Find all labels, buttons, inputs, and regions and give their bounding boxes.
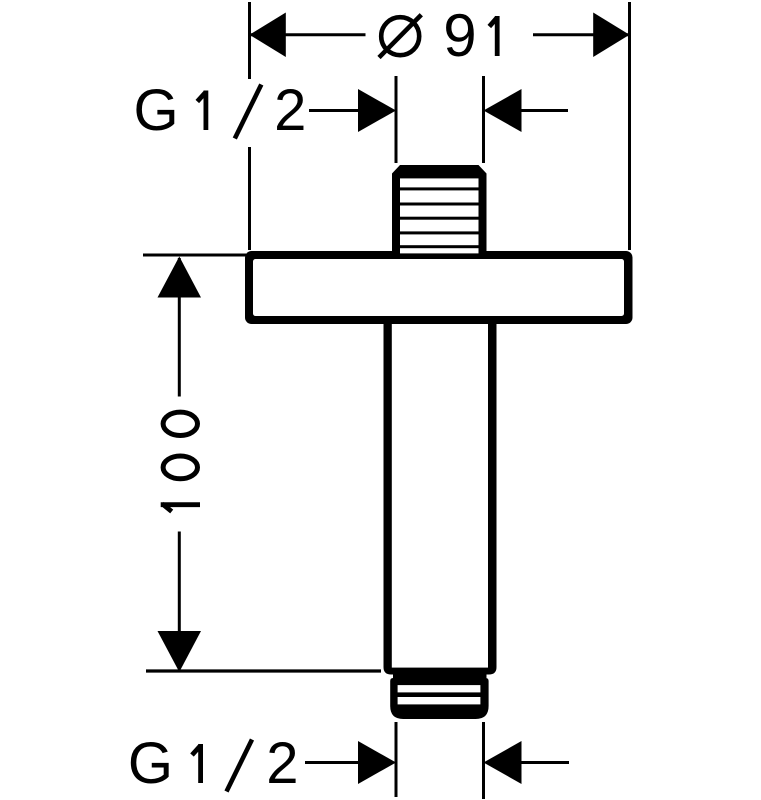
bottom G1/2 label: right extension line [482, 722, 485, 799]
dim Ø91: left arrowhead [250, 13, 286, 58]
top G1/2 label: right extension line [482, 76, 485, 163]
dim 100: up arrowhead [158, 257, 202, 298]
ceiling flange [245, 251, 633, 324]
svg-text:G: G [128, 731, 173, 796]
dim Ø91: left extension line [248, 2, 251, 250]
dim 100: digit 0 a (rotated ellipse) [163, 456, 197, 479]
top G1/2 label: left extension line [395, 76, 398, 163]
dim 100: dimension line [178, 258, 181, 668]
dim 100: digit 1 (rotated) [161, 504, 200, 512]
svg-text:2: 2 [274, 78, 306, 143]
thread line 4 [400, 231, 479, 234]
top G1/2 label: digit 1 [197, 91, 206, 131]
bottom thread white stripe 1 [398, 685, 481, 692]
dim 100: bottom extension line [146, 669, 381, 672]
thread line 1 [400, 187, 479, 190]
bottom G1/2 label: leader line right [521, 761, 569, 764]
dim Ø91: digit 1 [489, 16, 497, 56]
dim 100: down arrowhead [158, 631, 202, 672]
top G1/2 label: leader line right [521, 109, 568, 112]
bottom thread G1/2 body [390, 678, 488, 719]
dim 100: digit 0 b (rotated ellipse) [163, 412, 197, 435]
dim Ø91: dimension line [250, 33, 629, 36]
dim Ø91: right arrowhead [593, 13, 629, 58]
bottom G1/2 label: left-pointing arrowhead [484, 741, 522, 784]
bottom thread white stripe 2 [398, 697, 481, 704]
top G1/2 label: right-pointing arrowhead [358, 89, 396, 132]
dim 100: text mask [152, 397, 207, 532]
top G1/2 label: slash [235, 85, 261, 139]
dim Ø91: diameter symbol slash [379, 15, 421, 58]
top G1/2 label: left-pointing arrowhead [484, 89, 522, 132]
bottom G1/2 label: left extension line [395, 722, 398, 797]
neck groove [393, 670, 487, 684]
svg-text:2: 2 [266, 731, 298, 796]
dim Ø91: text mask [366, 13, 534, 58]
bottom G1/2 label: right-pointing arrowhead [358, 741, 396, 784]
top G1/2 label: text mask [127, 79, 313, 147]
thread line 3 [400, 217, 479, 220]
thread line 2 [400, 203, 479, 206]
bottom G1/2 label: slash [227, 740, 253, 792]
top G1/2 label: leader line left [309, 109, 360, 112]
svg-text:9: 9 [443, 2, 476, 69]
dim 100: top extension line [143, 254, 246, 257]
pipe [384, 324, 497, 675]
bottom G1/2 label: leader line left [305, 761, 358, 764]
bottom G1/2 label: digit 1 [192, 744, 201, 783]
dim Ø91: right extension line [628, 2, 631, 250]
thread line 5 [400, 245, 479, 248]
top thread G1/2 body [392, 165, 487, 253]
dim Ø91: diameter symbol circle [381, 17, 419, 55]
svg-text:G: G [134, 78, 179, 143]
